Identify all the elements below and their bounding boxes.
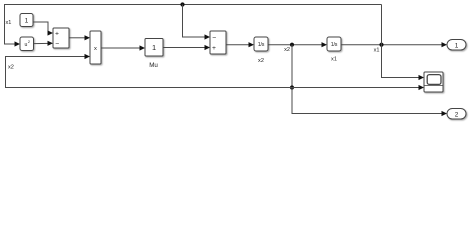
wire J4 up to top feedback xyxy=(381,5,383,45)
integrator x2 xyxy=(254,37,268,51)
svg-text:x1: x1 xyxy=(6,20,12,26)
wire x2 feedback left loop to product xyxy=(6,57,293,88)
math function u^2 xyxy=(20,37,34,51)
wire sum2 to integrator x2 xyxy=(227,44,250,46)
wire J1 down to sum2 minus input xyxy=(183,5,206,38)
svg-text:x2: x2 xyxy=(8,65,14,71)
wire J3 down to Out2 xyxy=(292,88,443,114)
node J2 x2 junction xyxy=(290,43,294,47)
svg-text:−: − xyxy=(55,41,59,48)
output port 1 xyxy=(447,40,466,51)
svg-text:−: − xyxy=(212,35,216,42)
wire J4 down to scope upper input xyxy=(382,45,420,78)
scope block xyxy=(424,72,443,92)
wire sum1 to product xyxy=(70,37,86,39)
wire constant to sum1 plus xyxy=(34,22,50,33)
svg-text:x: x xyxy=(94,46,97,52)
gain Mu xyxy=(145,39,163,57)
svg-text:1/s: 1/s xyxy=(331,42,338,48)
svg-text:x2: x2 xyxy=(258,58,264,64)
node J4 x1 junction xyxy=(379,43,383,47)
wire Mu to sum2 plus xyxy=(164,47,206,49)
output port 2 xyxy=(447,109,466,120)
svg-text:2: 2 xyxy=(455,111,459,118)
svg-text:1: 1 xyxy=(455,42,459,49)
svg-text:x2: x2 xyxy=(284,47,290,53)
sum block S1 (+ -) xyxy=(53,28,69,48)
svg-text:+: + xyxy=(212,45,216,52)
svg-text:+: + xyxy=(55,31,59,38)
svg-text:1: 1 xyxy=(25,17,29,24)
svg-text:1/s: 1/s xyxy=(258,42,265,48)
wire J2 down to J3 xyxy=(291,45,293,88)
wire u^2 to sum1 minus xyxy=(34,42,50,44)
wire J3 to scope lower input xyxy=(292,87,420,89)
node J3 junction xyxy=(290,85,294,89)
svg-text:1: 1 xyxy=(152,43,156,52)
product block xyxy=(90,31,101,64)
wire product to Mu gain xyxy=(102,47,141,49)
wire x1 out to Out1 xyxy=(342,44,443,46)
wire x2 to integrator x1 xyxy=(269,44,323,46)
svg-text:Mu: Mu xyxy=(149,62,158,69)
integrator x1 xyxy=(327,37,341,51)
sum block S2 (- +) xyxy=(210,31,226,54)
wire x1 top feedback (junction to left, down left edge) xyxy=(5,5,382,45)
constant block 1 xyxy=(20,14,33,27)
wire arrow into u^2 xyxy=(15,41,21,46)
node J1 top junction xyxy=(180,2,184,6)
svg-text:x1: x1 xyxy=(374,48,380,54)
svg-text:x1: x1 xyxy=(331,57,337,63)
svg-text:2: 2 xyxy=(28,40,30,44)
